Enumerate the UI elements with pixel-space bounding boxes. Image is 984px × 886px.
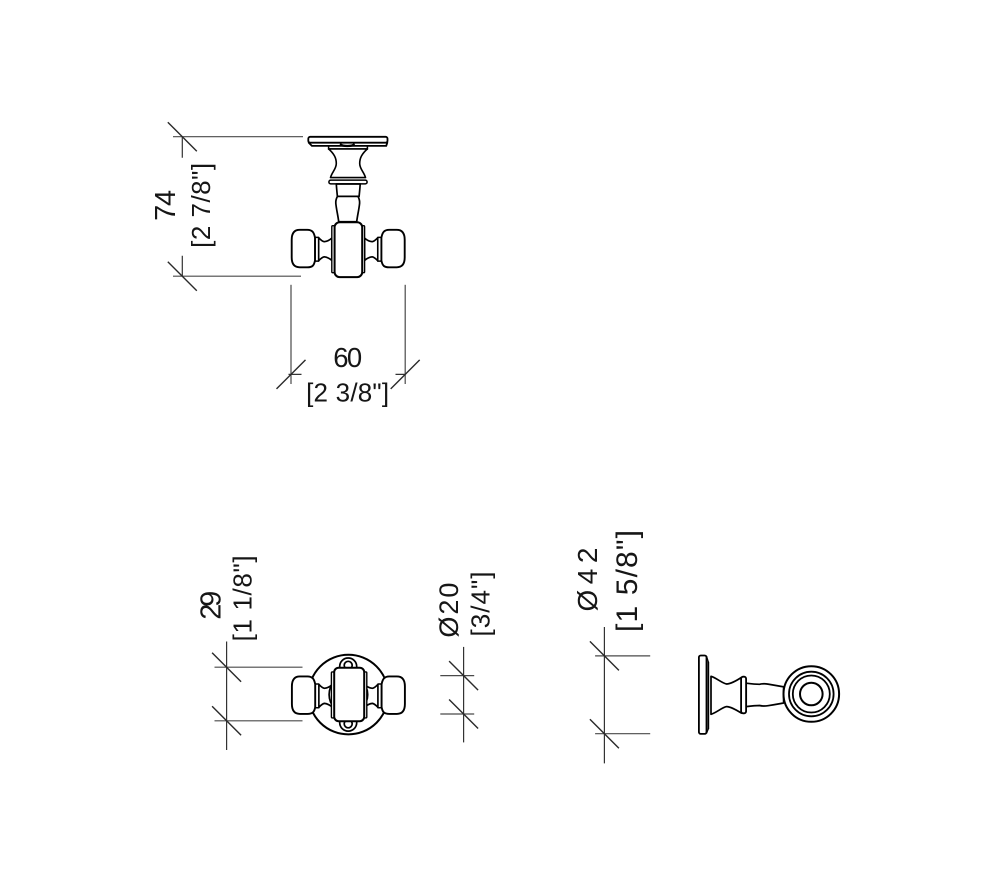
ext line left (knob edge): [290, 285, 292, 384]
knob ring 3: [793, 676, 830, 713]
knob ring 2: [789, 672, 834, 717]
wall plate circle: [309, 655, 389, 735]
ext line top (block top): [215, 666, 303, 668]
upper stem taper: [336, 184, 360, 196]
svg-text:60: 60: [333, 342, 362, 373]
bell top ridge line: [329, 148, 368, 150]
top screw tab: [340, 658, 357, 668]
knob center boss: [800, 683, 823, 706]
svg-text:29: 29: [195, 591, 227, 620]
stem bead: [336, 196, 360, 221]
ext line bottom (block bottom): [215, 720, 303, 722]
left knob collar (plan): [315, 684, 319, 708]
lip connectors: [707, 657, 709, 734]
under-plate shadow ellipse: [341, 144, 354, 146]
dim line stubs horizontal: [289, 373, 406, 375]
left side flange: [332, 226, 335, 273]
svg-text:[2 3/8"]: [2 3/8"]: [306, 378, 389, 408]
bell of post: [329, 149, 368, 178]
svg-text:[1 5/8"]: [1 5/8"]: [611, 530, 644, 632]
tick bottom: [590, 719, 619, 748]
post collar disc: [329, 180, 367, 184]
bottom screw hole: [344, 720, 352, 728]
dim line vertical: [226, 642, 228, 751]
right knob collar: [378, 237, 382, 261]
ext line top (plate top): [173, 136, 303, 138]
dim line stubs vertical: [181, 137, 183, 277]
dim line vertical: [463, 647, 465, 743]
tick right: [391, 360, 420, 389]
bottom screw tab: [340, 721, 357, 731]
central block body: [335, 222, 363, 277]
left knob neck: [319, 238, 332, 261]
left flange (plan): [331, 672, 334, 718]
wall plate (side): [699, 656, 707, 734]
svg-text:Ø20: Ø20: [434, 583, 464, 638]
ext stub bottom (plate bottom): [595, 733, 650, 735]
right knob head (plan): [382, 676, 405, 714]
left knob collar: [315, 237, 319, 261]
svg-text:[3/4"]: [3/4"]: [465, 572, 495, 637]
knob outer circle (side): [784, 666, 840, 722]
svg-text:[2 7/8"]: [2 7/8"]: [186, 163, 216, 248]
right flange (plan): [364, 672, 367, 718]
left knob head (plan): [292, 676, 315, 714]
tick top: [449, 661, 478, 690]
block body (plan): [334, 668, 364, 722]
tick bottom: [168, 262, 197, 291]
bell (side): [711, 676, 741, 714]
left knob head: [292, 230, 315, 267]
right knob neck: [365, 238, 378, 261]
wall plate bevel (edge view): [309, 143, 388, 146]
svg-text:[1 1/8"]: [1 1/8"]: [228, 555, 258, 641]
ext line bottom (block bottom): [173, 275, 301, 277]
top screw hole: [344, 661, 352, 669]
wall plate main band (edge view): [308, 137, 387, 143]
bell neck below plate: [329, 146, 368, 149]
tick top: [590, 641, 619, 670]
right knob head: [381, 230, 404, 267]
post collar circle (hidden sliver): [329, 675, 368, 714]
ext line right (knob edge): [404, 285, 406, 384]
ext stub top (knob edge): [440, 675, 474, 677]
collar (side): [741, 677, 746, 714]
right side flange: [362, 226, 365, 273]
tick left: [277, 360, 306, 389]
dim line vertical: [603, 627, 605, 763]
tick top: [212, 653, 241, 682]
right knob neck (plan): [365, 684, 378, 707]
right knob collar (plan): [378, 684, 382, 708]
ext stub bottom (knob edge): [440, 713, 474, 715]
tick top: [168, 122, 197, 151]
stem (side): [746, 683, 783, 706]
svg-text:74: 74: [150, 190, 182, 221]
svg-text:Ø42: Ø42: [572, 548, 603, 612]
left knob neck (plan): [319, 684, 332, 707]
tick bottom: [449, 700, 478, 729]
ext stub top (plate top): [595, 655, 650, 657]
tick bottom: [212, 706, 241, 735]
plate bevel lip (side): [707, 662, 709, 728]
